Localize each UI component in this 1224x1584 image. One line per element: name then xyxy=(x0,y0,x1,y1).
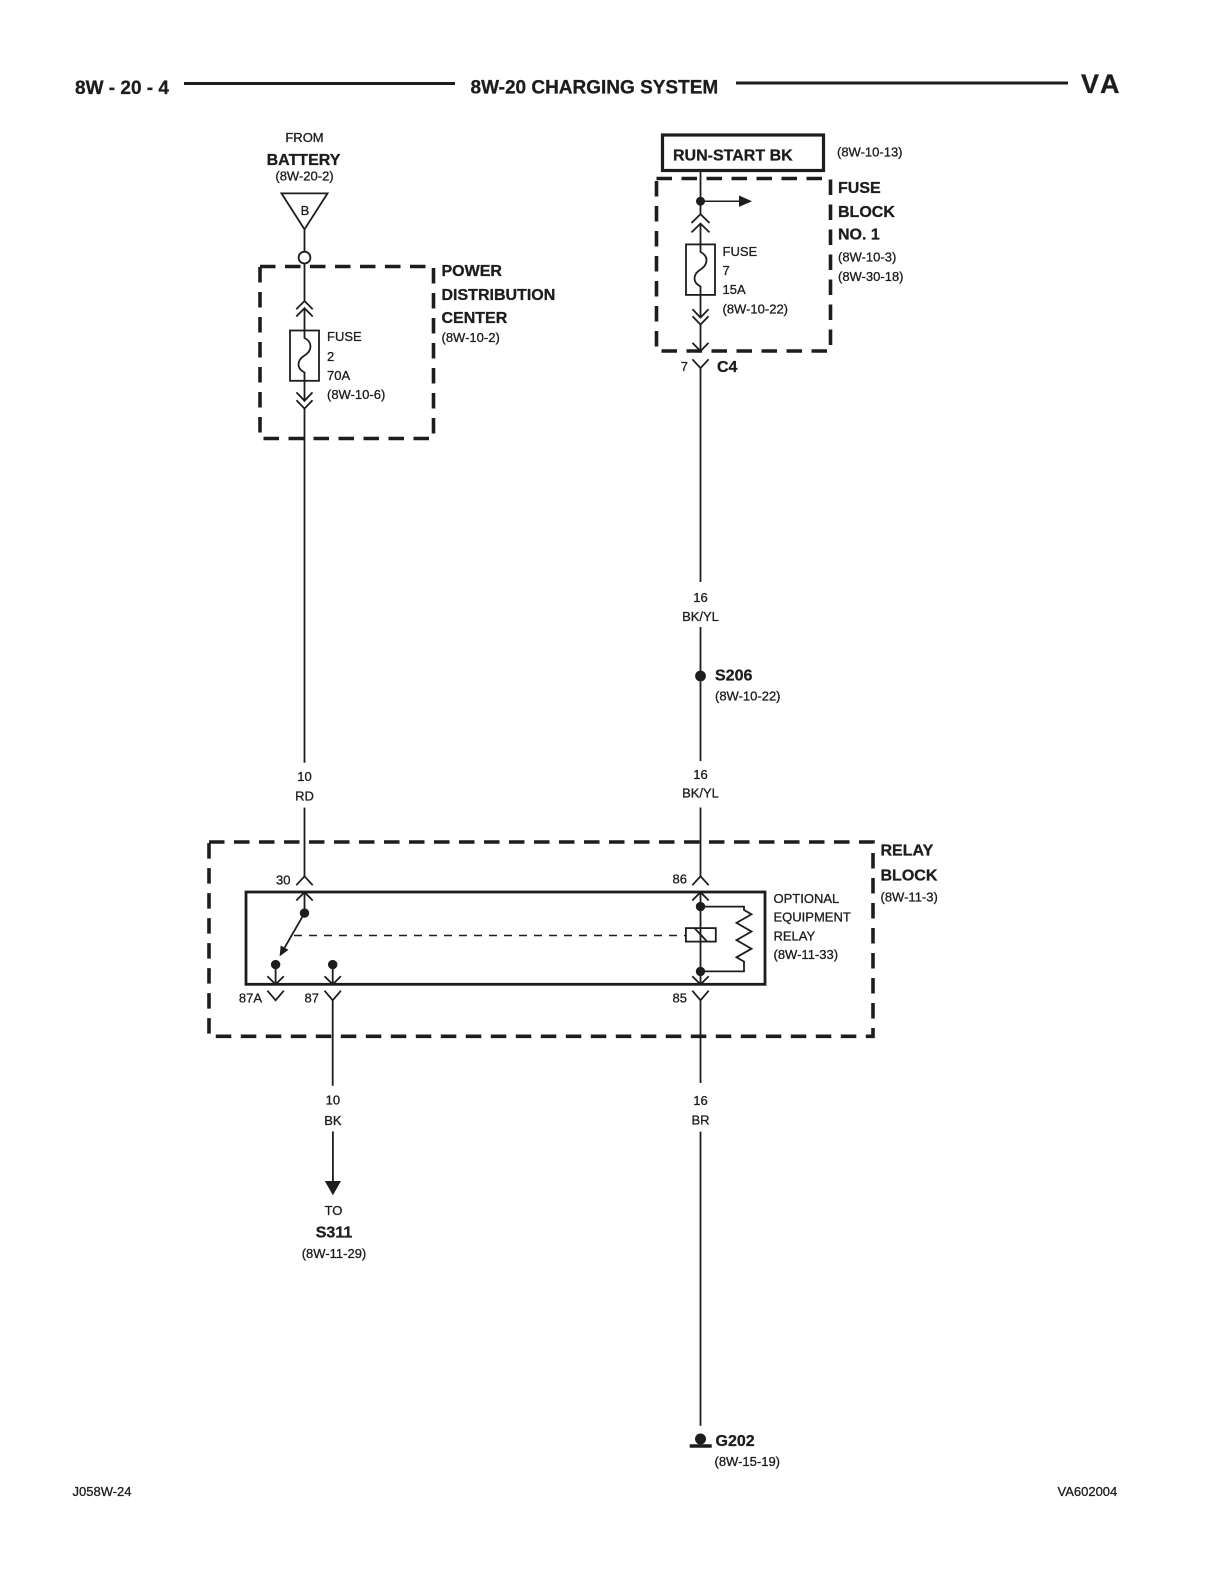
svg-text:FUSE: FUSE xyxy=(838,180,881,197)
svg-text:(8W-10-22): (8W-10-22) xyxy=(715,689,781,704)
svg-text:(8W-20-2): (8W-20-2) xyxy=(275,169,333,184)
svg-text:(8W-10-6): (8W-10-6) xyxy=(327,387,385,402)
85 below-box chevron with tail xyxy=(692,991,708,1001)
relay coil resistance loop xyxy=(701,907,752,972)
fuse F7 label xyxy=(723,244,789,317)
wire to relay block pin 86 xyxy=(700,808,702,877)
svg-text:10: 10 xyxy=(326,1093,340,1108)
relay common junction dot xyxy=(300,908,309,917)
wire to splice S206 xyxy=(700,627,702,671)
arrowhead to S311 xyxy=(325,1181,341,1195)
svg-text:8W-20 CHARGING SYSTEM: 8W-20 CHARGING SYSTEM xyxy=(471,78,719,99)
svg-text:J058W-24: J058W-24 xyxy=(73,1484,132,1499)
svg-text:8W - 20 - 4: 8W - 20 - 4 xyxy=(75,78,169,99)
svg-text:(8W-10-3): (8W-10-3) xyxy=(838,250,896,265)
relay switch arm with arrowhead xyxy=(280,913,305,956)
svg-text:VA: VA xyxy=(1081,69,1123,99)
coil bottom junction dot xyxy=(696,967,705,976)
svg-text:S206: S206 xyxy=(715,668,752,685)
ground G202 symbol xyxy=(690,1434,712,1447)
svg-text:(8W-11-3): (8W-11-3) xyxy=(881,890,938,905)
svg-text:FUSE: FUSE xyxy=(723,244,758,259)
wire gauge label 16 BR xyxy=(691,1093,709,1128)
wire gauge label 10 RD xyxy=(295,769,314,804)
splice S206 label xyxy=(715,668,781,704)
svg-text:15A: 15A xyxy=(723,282,746,297)
header rule right xyxy=(736,82,1068,85)
splice S206 dot xyxy=(695,671,706,682)
wire fuse 7 to chevrons xyxy=(700,295,702,318)
87 exit chevron at border xyxy=(325,976,341,984)
svg-text:G202: G202 xyxy=(716,1433,755,1450)
87A exit chevron at border xyxy=(267,976,283,984)
relay block dashed box xyxy=(209,842,873,1036)
label FROM BATTERY xyxy=(267,130,341,184)
wire to ground G202 xyxy=(700,1132,702,1426)
svg-text:RD: RD xyxy=(295,789,314,804)
85 exit chevron at border xyxy=(692,976,708,984)
wire gauge label 10 BK xyxy=(324,1093,342,1128)
wire gauge label 16 BK/YL upper xyxy=(682,590,719,624)
svg-text:10: 10 xyxy=(297,769,311,784)
wire fuse 2 to chevrons xyxy=(304,381,306,401)
svg-text:(8W-10-2): (8W-10-2) xyxy=(442,330,500,345)
svg-text:(8W-15-19): (8W-15-19) xyxy=(715,1454,781,1469)
wire run-start to junction xyxy=(700,171,702,214)
wire 87 to gauge label xyxy=(332,1000,334,1085)
optional equipment relay label xyxy=(774,891,851,962)
svg-text:87: 87 xyxy=(305,991,319,1006)
fuse F7 body xyxy=(686,244,715,295)
svg-text:(8W-11-33): (8W-11-33) xyxy=(774,947,839,962)
svg-text:RELAY: RELAY xyxy=(774,928,816,943)
svg-text:7: 7 xyxy=(681,359,688,374)
svg-text:16: 16 xyxy=(693,1093,707,1108)
pin 30 chevron above box xyxy=(296,876,312,885)
wire 85 to gauge label xyxy=(700,1000,702,1083)
pin 30 entry chevron xyxy=(296,892,312,900)
svg-text:EQUIPMENT: EQUIPMENT xyxy=(774,910,851,925)
svg-text:85: 85 xyxy=(673,991,687,1006)
wire to relay block pin 30 xyxy=(304,808,306,877)
svg-text:30: 30 xyxy=(276,873,290,888)
contact 87 dot xyxy=(328,960,337,969)
fuse F2 body xyxy=(290,331,319,381)
relay U1 inner box xyxy=(246,892,765,984)
chevron pair up in fuse block xyxy=(692,214,710,232)
connector B triangle from battery xyxy=(282,193,328,229)
svg-text:7: 7 xyxy=(723,263,730,278)
svg-text:(8W-10-13): (8W-10-13) xyxy=(837,145,903,160)
svg-text:BK/YL: BK/YL xyxy=(682,609,719,624)
wire 87A to border xyxy=(275,965,277,985)
87 below-box chevron with tail xyxy=(325,991,341,1001)
wire C4 to gauge label xyxy=(700,374,702,583)
wire to fuse block border xyxy=(700,325,702,351)
wire battery triangle to terminal circle xyxy=(304,229,306,251)
destination label TO S311 xyxy=(302,1203,367,1261)
connector box RUN-START BK xyxy=(663,135,824,171)
pin 86 entry chevron xyxy=(692,892,708,900)
ground G202 label xyxy=(715,1433,781,1469)
svg-text:S311: S311 xyxy=(316,1225,353,1242)
svg-text:B: B xyxy=(301,203,310,218)
svg-text:POWER: POWER xyxy=(442,263,503,280)
87A below-box chevron xyxy=(267,991,283,1001)
svg-text:BLOCK: BLOCK xyxy=(881,867,938,884)
svg-text:VA602004: VA602004 xyxy=(1058,1484,1118,1499)
wire PDC to relay block pin 30 upper segment xyxy=(304,409,306,763)
wire through armature xyxy=(700,907,702,972)
fuse block no.1 label xyxy=(838,180,904,284)
relay armature box xyxy=(686,928,716,942)
wire splice to gauge label xyxy=(700,682,702,762)
svg-text:87A: 87A xyxy=(239,991,262,1006)
svg-text:FROM: FROM xyxy=(285,130,323,145)
svg-text:RELAY: RELAY xyxy=(881,843,934,860)
contact 87A dot xyxy=(271,960,280,969)
svg-text:BATTERY: BATTERY xyxy=(267,152,341,169)
svg-text:BK: BK xyxy=(324,1113,342,1128)
svg-text:16: 16 xyxy=(693,767,707,782)
chevron pair down below fuse 2 xyxy=(297,392,313,408)
svg-text:TO: TO xyxy=(325,1203,343,1218)
svg-text:CENTER: CENTER xyxy=(442,310,508,327)
power distribution center label xyxy=(442,263,556,345)
svg-text:BLOCK: BLOCK xyxy=(838,204,895,221)
svg-text:70A: 70A xyxy=(327,368,350,383)
chevron pair down below fuse 7 xyxy=(693,309,709,324)
pin 86 chevron above box xyxy=(692,876,708,885)
svg-text:BK/YL: BK/YL xyxy=(682,786,719,801)
wire to S311 arrow xyxy=(332,1132,334,1182)
wire chevron to fuse 2 xyxy=(304,308,306,330)
wire circle into PDC xyxy=(304,264,306,302)
svg-text:(8W-11-29): (8W-11-29) xyxy=(302,1246,367,1261)
svg-text:OPTIONAL: OPTIONAL xyxy=(774,891,840,906)
svg-text:C4: C4 xyxy=(717,359,738,376)
terminal circle xyxy=(299,252,311,264)
branch arrow right xyxy=(701,196,753,207)
coil top junction dot xyxy=(696,902,705,911)
svg-text:86: 86 xyxy=(673,872,687,887)
junction dot in fuse block xyxy=(696,197,705,206)
actuation dashed link xyxy=(294,935,686,937)
wire gauge label 16 BK/YL lower xyxy=(682,767,719,801)
chevron pair up into PDC xyxy=(296,301,312,317)
fuse block no.1 dashed box xyxy=(657,179,831,352)
wire 87 to border xyxy=(332,965,334,985)
power distribution center dashed box xyxy=(260,267,434,439)
svg-text:2: 2 xyxy=(327,349,334,364)
svg-text:NO. 1: NO. 1 xyxy=(838,227,880,244)
chevron at fuse block border xyxy=(693,343,709,351)
wire pin 30 to common xyxy=(304,892,306,913)
svg-text:DISTRIBUTION: DISTRIBUTION xyxy=(442,287,556,304)
svg-text:(8W-10-22): (8W-10-22) xyxy=(723,302,789,317)
svg-text:16: 16 xyxy=(693,590,707,605)
wire chevron to fuse 7 xyxy=(700,224,702,245)
svg-text:RUN-START BK: RUN-START BK xyxy=(673,148,793,165)
header rule left xyxy=(184,82,455,85)
svg-text:BR: BR xyxy=(691,1113,709,1128)
wire pin 86 to coil xyxy=(700,892,702,907)
fuse F2 label xyxy=(327,329,385,402)
relay block label xyxy=(881,843,938,905)
wire 85 to border xyxy=(700,971,702,984)
svg-text:(8W-30-18): (8W-30-18) xyxy=(838,269,904,284)
svg-text:FUSE: FUSE xyxy=(327,329,362,344)
connector C4 symbol xyxy=(692,359,708,373)
